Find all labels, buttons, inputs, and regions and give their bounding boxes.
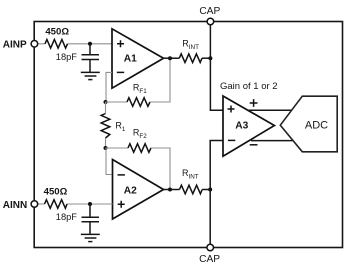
svg-text:18pF: 18pF	[56, 52, 78, 62]
svg-text:A1: A1	[124, 54, 137, 65]
node A1 output junction	[168, 56, 172, 60]
wire AINP input run	[38, 43, 112, 45]
svg-text:CAP: CAP	[199, 254, 220, 265]
resistor 450Ω (top)	[45, 40, 68, 49]
node RINT top / CAP line junction	[208, 56, 212, 60]
capacitor 18pF (top)	[82, 44, 100, 72]
wire A1 inverting input feedback	[106, 72, 112, 102]
svg-text:CAP: CAP	[199, 6, 220, 17]
pin − output label	[250, 144, 258, 146]
node RINT bottom / CAP line junction	[208, 188, 212, 192]
ADC block	[280, 96, 337, 152]
wire RINT bottom right lead	[202, 189, 210, 191]
wire A1 output to RINT	[164, 57, 180, 59]
svg-text:AINP: AINP	[3, 40, 27, 51]
wire RF1 right lead to A1 output	[150, 58, 170, 102]
svg-text:18pF: 18pF	[56, 212, 78, 222]
svg-text:ADC: ADC	[305, 120, 328, 132]
pin + of A3	[228, 106, 235, 113]
node AINP filter junction	[88, 42, 92, 46]
wire A3 negative output to ADC	[251, 140, 293, 142]
capacitor 18pF (bottom)	[82, 204, 100, 234]
wire CAP bottom line up to A3 inverting input	[210, 141, 223, 245]
wire RINT top right lead	[202, 57, 210, 59]
terminal CAP (bottom)	[207, 244, 214, 251]
terminal AINN	[31, 201, 38, 208]
terminal CAP (top)	[207, 18, 214, 25]
wire A2 inverting input feedback	[106, 148, 113, 175]
svg-text:A3: A3	[235, 120, 248, 131]
wire CAP top line down to A3 noninverting input	[210, 25, 223, 110]
wire A3 positive output to ADC	[248, 109, 292, 111]
resistor RINT (top)	[179, 54, 202, 63]
svg-text:AINN: AINN	[3, 200, 27, 211]
pin − of A3	[228, 139, 235, 141]
ground (top)	[81, 72, 100, 79]
wire AINN input run	[38, 203, 113, 205]
svg-text:Gain of 1 or 2: Gain of 1 or 2	[220, 81, 278, 92]
pin + output label	[250, 99, 258, 107]
node AINN filter junction	[88, 202, 92, 206]
ground (bottom)	[81, 234, 100, 241]
pin + of A2	[118, 201, 125, 208]
pin − of A1	[117, 71, 124, 73]
wire A2 output to RINT	[164, 189, 180, 191]
node A2 output junction	[168, 188, 172, 192]
wire RF2 left lead	[106, 147, 129, 149]
terminal AINP	[31, 41, 38, 48]
resistor RF2	[128, 144, 151, 153]
op-amp A3	[223, 96, 274, 156]
wire RF1 left lead	[106, 101, 128, 103]
resistor RINT (bottom)	[180, 185, 203, 194]
svg-text:A2: A2	[124, 185, 137, 196]
op-amp A1	[112, 29, 164, 88]
chip boundary box	[34, 22, 342, 248]
wire RF2 right lead to A2 output	[151, 148, 170, 190]
pin + of A1	[117, 40, 124, 47]
node RF1 left junction	[104, 100, 108, 104]
pin − of A2	[118, 174, 125, 176]
op-amp A2	[113, 160, 164, 220]
node RF2 left junction	[104, 146, 108, 150]
svg-text:450Ω: 450Ω	[45, 27, 69, 38]
resistor 450Ω (bottom)	[45, 200, 68, 209]
resistor RF1	[127, 98, 150, 107]
resistor R1	[101, 114, 110, 139]
wire R1 leads	[105, 102, 107, 148]
svg-text:450Ω: 450Ω	[44, 187, 68, 198]
